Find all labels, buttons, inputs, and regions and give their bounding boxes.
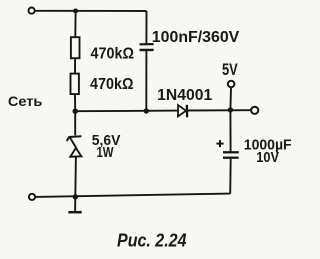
label 5V — [222, 61, 238, 79]
wire top rail — [35, 10, 147, 12]
wire middle rail left — [75, 110, 178, 113]
label C2 1000uF — [244, 138, 292, 154]
diode D1 1N4001 — [178, 105, 187, 117]
terminal 5V — [228, 81, 235, 88]
svg-text:470kΩ: 470kΩ — [90, 76, 134, 93]
wire zener top lead — [74, 111, 76, 135]
caption Ris. 2.24 — [117, 230, 187, 250]
wire C2 top lead — [229, 110, 231, 152]
resistor R1 470k — [71, 37, 80, 58]
terminal mains top — [29, 8, 35, 14]
label Set (mains) — [8, 93, 43, 109]
capacitor C2 1000uF — [223, 152, 239, 157]
node ground junction — [73, 194, 78, 199]
node top junction — [73, 9, 78, 14]
label Z1 5,6V — [92, 133, 121, 149]
label D1 1N4001 — [157, 87, 212, 104]
wire zener bottom lead — [74, 157, 77, 197]
terminal mains bottom — [29, 194, 35, 200]
label C2 10V — [256, 150, 279, 166]
wire R1 top lead — [74, 11, 76, 37]
wire C2 bottom lead — [229, 159, 232, 194]
resistor R2 470k — [71, 74, 79, 95]
label C1 100nF/360V — [152, 29, 240, 46]
svg-text:10V: 10V — [256, 150, 279, 166]
wire C1 top lead — [145, 11, 147, 44]
label R2 470kOhm — [90, 76, 134, 93]
wire bottom rail — [35, 194, 230, 197]
wire C1 bottom lead — [145, 51, 147, 111]
ground — [68, 197, 81, 212]
terminal output right — [251, 107, 258, 114]
node capacitor C1 junction — [144, 108, 149, 113]
wire R1-R2 — [74, 58, 76, 73]
wire R2 bottom lead — [74, 94, 76, 111]
wire 5V lead — [229, 88, 232, 110]
svg-text:100nF/360V: 100nF/360V — [152, 29, 240, 46]
label C2 plus — [216, 140, 223, 147]
svg-text:1N4001: 1N4001 — [157, 87, 212, 104]
label R1 470kOhm — [91, 45, 135, 62]
svg-text:1W: 1W — [97, 145, 114, 161]
svg-text:5V: 5V — [222, 61, 238, 79]
node middle-left junction — [73, 109, 78, 114]
wire middle rail right — [187, 109, 251, 111]
svg-text:470kΩ: 470kΩ — [91, 45, 135, 62]
label Z1 1W — [97, 145, 114, 161]
zener Z1 5.6V — [67, 136, 82, 157]
node 5V junction — [228, 107, 233, 112]
capacitor C1 100nF — [140, 44, 154, 50]
svg-text:Сеть: Сеть — [8, 93, 43, 109]
svg-text:Рис. 2.24: Рис. 2.24 — [117, 230, 187, 250]
